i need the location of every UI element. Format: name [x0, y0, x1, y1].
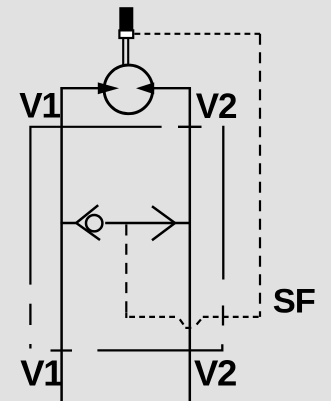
pilot line: dashed horizontal top (from brake to SF drop) [135, 33, 261, 35]
wire: middle line right segment [105, 222, 191, 224]
svg-text:V2: V2 [194, 353, 236, 394]
wire: upper horizontal line from left body edge [30, 127, 161, 285]
motor M (circle) [104, 65, 153, 114]
pilot line: dashed horizontal right run [203, 316, 260, 318]
motor shaft (double line) [123, 39, 128, 66]
pilot line: dashed horizontal left run [129, 316, 177, 318]
pilot line: dashed vertical right (SF line) [259, 34, 261, 317]
motor arrow left (solid, pointing inward) [98, 82, 119, 94]
wire: middle line left segment [60, 222, 77, 224]
svg-text:SF: SF [273, 283, 315, 321]
pilot line: dashed vertical from middle line [125, 225, 127, 313]
brake piston box [119, 30, 133, 38]
right body edge line [222, 126, 224, 280]
right body edge dash (tick) [222, 306, 224, 326]
flow direction arrow (open chevron) [152, 206, 175, 240]
wire: bottom horizontal with upturn [97, 344, 222, 350]
wire: V2 main vertical line [189, 87, 192, 401]
wire: V1 main vertical line [60, 87, 63, 401]
svg-text:V2: V2 [196, 87, 237, 126]
port tick on V1 line (bottom) [51, 349, 73, 351]
svg-text:V1: V1 [19, 87, 60, 126]
pilot line jog under V2 line: left diagonal dash [180, 319, 184, 324]
pilot line jog: right diagonal dash [197, 319, 201, 324]
motor arrow right (solid, pointing inward) [136, 82, 154, 94]
left body edge long dashes [29, 304, 31, 349]
port tick on V2 line (top) [178, 126, 202, 128]
pilot line jog: bottom dash [185, 327, 191, 329]
brake actuator body (solid block) [119, 7, 133, 30]
check valve seat (V) [76, 205, 100, 240]
pilot line corner piece [125, 313, 127, 319]
wire: top left from V1 line to motor [60, 87, 104, 89]
check valve ball (circle) [86, 215, 102, 231]
svg-text:V1: V1 [20, 352, 63, 393]
wire: top right from motor to V2 line [153, 87, 191, 89]
